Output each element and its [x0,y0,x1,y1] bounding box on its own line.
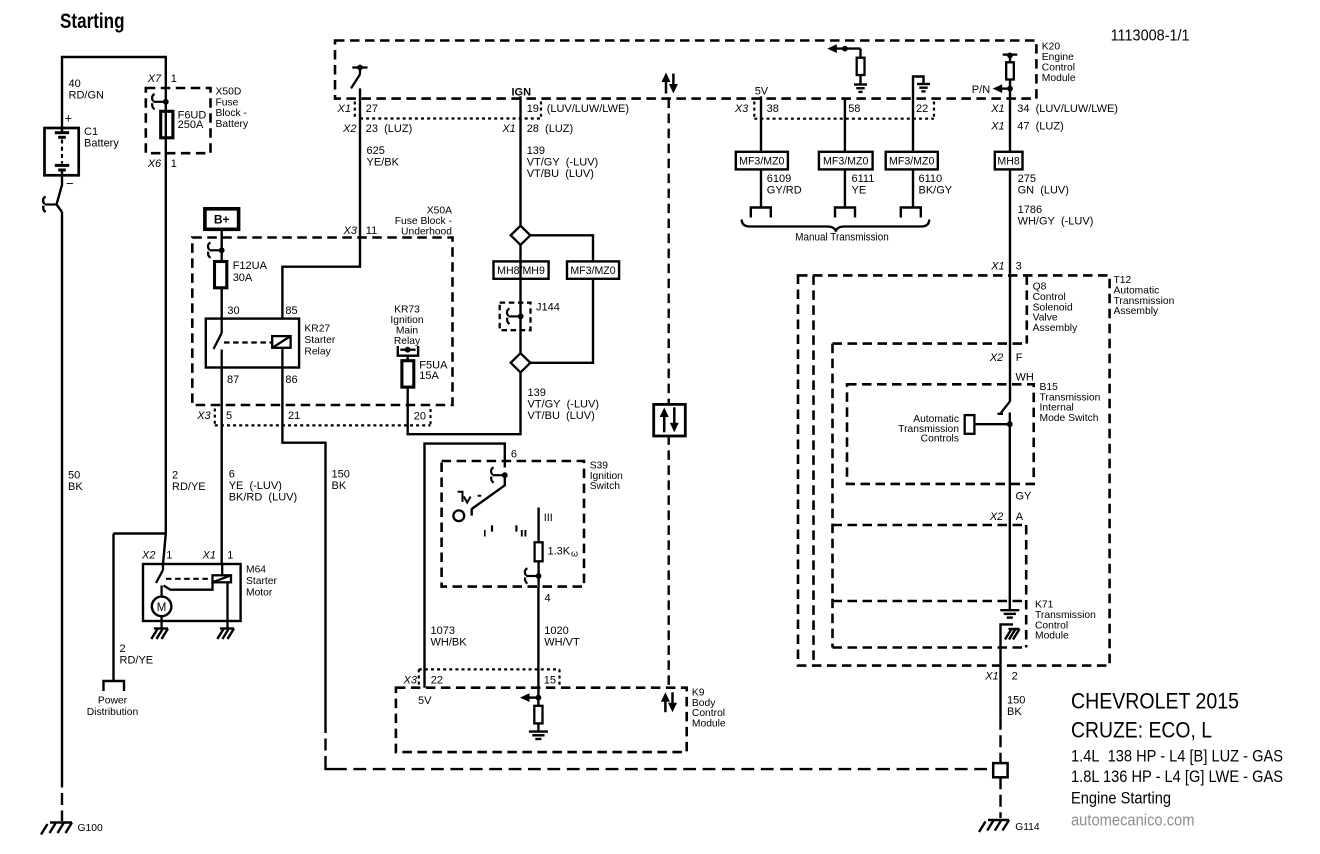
splice diamond lower [511,353,531,372]
wire 275 GN [1009,169,1011,401]
svg-text:1786: 1786 [1018,204,1042,216]
label X50A Fuse Block - Underhood [395,206,453,238]
battery minus sign [66,176,74,191]
svg-text:K71: K71 [1035,600,1054,611]
svg-text:30A: 30A [233,272,253,284]
battery negative lead with connector [43,175,62,212]
svg-text:−: − [66,176,74,191]
serial data arrows in K20 [662,73,678,94]
svg-text:1.3K: 1.3K [548,546,571,558]
svg-text:15: 15 [544,675,556,687]
wire through J144 [519,245,521,353]
label X50D Fuse Block - Battery [216,86,249,130]
svg-text:F: F [1016,352,1023,364]
svg-text:50: 50 [68,470,80,482]
pin X1 47 (LUZ) [990,121,1064,133]
label 6109 GY/RD [767,173,802,197]
svg-text:X1: X1 [202,550,216,562]
svg-text:WH/VT: WH/VT [544,637,580,649]
svg-text:MH8: MH8 [997,155,1019,167]
svg-text:G114: G114 [1015,822,1040,833]
wire label 40 RD/GN [69,78,105,102]
module K71 top border [833,600,1026,603]
svg-text:6: 6 [229,469,235,481]
svg-text:275: 275 [1018,173,1036,185]
wire P/N to MH8 [1009,99,1011,152]
svg-text:22: 22 [431,675,443,687]
label Q8 Control Solenoid Valve Assembly [1033,282,1078,335]
svg-text:X3: X3 [343,225,358,237]
svg-text:C1: C1 [84,126,98,138]
footer CHEVROLET 2015 [1071,688,1239,713]
svg-text:1.8L 136 HP - L4 [G] LWE - GAS: 1.8L 136 HP - L4 [G] LWE - GAS [1071,768,1283,786]
svg-text:X3: X3 [734,103,749,115]
battery label C1 Battery [84,126,119,150]
connector boundary dotted line right [754,118,934,120]
assembly inner left border [831,344,834,648]
label T12 Automatic Transmission Assembly [1114,275,1175,317]
pin 22 [916,102,934,118]
pin X2 A [989,511,1024,523]
wire dashed to splice [999,718,1001,763]
svg-text:19: 19 [527,103,539,115]
relay KR27 coil [272,336,290,367]
label 6110 BK/GY [919,173,953,197]
svg-text:Automatic: Automatic [1114,285,1160,296]
splice J144 [500,303,531,331]
terminal B+ [205,209,239,230]
ignition key symbol [458,492,482,503]
svg-text:MF3/MZ0: MF3/MZ0 [823,155,868,167]
label KR73 Ignition Main Relay [390,305,423,348]
position mark III wire [539,508,553,543]
svg-text:5V: 5V [418,695,432,707]
svg-text:P/N: P/N [972,84,990,96]
connector box MH8/MH9 [494,261,549,278]
pin 30 label [227,305,239,317]
chassis ground stub in K71 [1001,624,1020,717]
svg-text:Transmission: Transmission [1114,296,1175,307]
wire label 2 RD/YE [172,470,206,494]
wire pin 11 to KR27 coil [282,238,360,319]
svg-text:VT/GY (-LUV): VT/GY (-LUV) [527,156,599,168]
assembly T12 inner border [812,275,815,665]
ground G100 [41,823,103,835]
connector shoe second [835,208,855,218]
svg-text:ω: ω [571,549,578,559]
svg-text:MF3/MZ0: MF3/MZ0 [889,155,934,167]
svg-text:Assembly: Assembly [1114,306,1159,317]
label 275 GN (LUV) [1018,173,1069,197]
svg-text:M: M [157,602,167,614]
label KR27 Starter Relay [304,324,335,358]
connector S39 pin 6 [491,467,508,482]
connector S39 pin 4 [525,568,542,583]
power distribution off-page symbol [104,681,125,691]
svg-text:Switch: Switch [590,481,621,492]
svg-text:RD/GN: RD/GN [69,90,105,102]
wire 150 BK dashed segment [326,721,994,769]
footer 1.8L line [1071,768,1283,786]
label Automatic Transmission Controls [898,414,959,445]
pin X1 2 [984,670,1017,682]
svg-text:Engine: Engine [1042,52,1074,63]
wire 1073 WH/BK [425,444,505,688]
wire 5V pin 38 to MF3/MZ0 [760,96,762,152]
svg-text:X1: X1 [990,103,1004,115]
label B15 Transmission Internal Mode Switch [1040,382,1101,424]
position mark II [516,525,525,536]
pin X1 34 (LUV/LUW/LWE) [990,103,1118,115]
P/N switch resistor in K20 [993,53,1018,99]
pin X3 11 [343,225,378,237]
svg-text:VT/GY (-LUV): VT/GY (-LUV) [528,399,600,411]
switch S39 rotor circle [453,510,464,521]
svg-text:Module: Module [1035,631,1069,642]
label Power Distribution [87,696,139,718]
svg-text:BK/RD (LUV): BK/RD (LUV) [229,492,297,504]
pin 58 [848,103,860,115]
connector shoe first [751,208,771,218]
svg-text:Valve: Valve [1033,313,1058,324]
svg-text:Fuse: Fuse [216,97,239,108]
wire label 6 YE BK/RD [229,469,297,504]
pin X1 1 starter [202,550,234,562]
svg-text:87: 87 [227,374,239,386]
pin X1 28 (LUZ) [501,123,573,135]
pin X1 3 [990,260,1021,272]
fuse block X50A box [192,238,452,406]
wire branch to MF3/MZ0 [530,235,593,362]
wire label WH [1016,372,1034,384]
starter solenoid switch [156,564,163,597]
svg-text:Manual Transmission: Manual Transmission [795,232,889,244]
svg-text:GY: GY [1016,491,1033,503]
wire resistor to pin 4 [537,561,539,586]
switch S39 box [442,461,584,587]
label Manual Transmission [795,232,889,244]
relay KR27 actuation dashed link [224,341,272,343]
svg-text:X2: X2 [141,550,155,562]
pin X7 1 [147,73,177,85]
module K20 box [335,41,1036,99]
switch S39 blade [472,475,505,515]
ground pin 22 branch [913,77,930,99]
serial data dashed bus lower [668,435,670,687]
wire 150 BK from pin 21 [282,405,325,721]
svg-text:28 (LUZ): 28 (LUZ) [527,123,573,135]
svg-text:BK: BK [68,481,83,493]
ground under solenoid [217,629,234,640]
svg-text:150: 150 [1007,694,1025,706]
label 1.3K ohm [548,546,579,559]
solenoid actuation dashed link [166,578,213,580]
svg-text:1: 1 [166,550,172,562]
switch B15 box [847,384,1034,484]
svg-text:625: 625 [367,145,385,157]
svg-text:J144: J144 [536,302,560,314]
pin X2 1 starter [141,550,172,562]
fuse F12UA 30A [215,262,227,288]
wire B+ to fuse F12UA [220,229,222,261]
svg-text:Solenoid: Solenoid [1033,302,1073,313]
assembly right border lower [1025,525,1028,648]
svg-text:139: 139 [527,145,545,157]
svg-text:Starter: Starter [304,335,335,346]
svg-text:20: 20 [414,410,426,422]
svg-text:X1: X1 [990,121,1004,133]
svg-text:30: 30 [227,305,239,317]
pin 4 label [545,593,551,605]
splice diamond upper [511,226,531,245]
svg-text:X50D: X50D [216,86,242,97]
svg-text:Motor: Motor [246,587,273,598]
fuse F6UD 250A [161,111,173,138]
relay KR27 box [206,319,299,368]
wire label 50 BK [68,470,83,494]
module K71 bottom border [833,646,1026,649]
svg-text:11: 11 [366,225,377,237]
connector shoe third [901,208,921,218]
relay KR27 switch [214,319,222,368]
svg-text:CRUZE: ECO, L: CRUZE: ECO, L [1071,717,1212,742]
pin X2 23 (LUZ) [342,123,412,135]
svg-text:6109: 6109 [767,173,791,185]
serial data gateway box [654,404,686,436]
resistor 1.3K [535,542,543,561]
svg-text:Relay: Relay [394,336,421,347]
wire X6 to starter branch [163,89,166,565]
svg-text:III: III [544,512,553,524]
wire 139 to pin 20 [408,372,521,434]
svg-text:B+: B+ [214,213,230,227]
svg-text:Battery: Battery [216,119,249,130]
svg-text:21: 21 [288,410,300,422]
svg-text:A: A [1016,511,1024,523]
wire fuse F5UA to pin 20 [407,387,409,405]
svg-text:MF3/MZ0: MF3/MZ0 [570,265,615,277]
wire X1 pin to coil [221,564,223,575]
label P/N [972,84,990,96]
svg-text:Power: Power [98,696,128,707]
wire label 139 VT/GY VT/BU lower [528,387,600,422]
svg-text:X7: X7 [147,73,162,85]
svg-text:1: 1 [227,550,233,562]
splice square [993,763,1007,777]
svg-text:KR73: KR73 [394,305,420,316]
assembly Q8 lower boundary [833,342,1027,345]
svg-text:X1: X1 [337,103,351,115]
svg-text:X1: X1 [984,670,998,682]
svg-text:Fuse Block -: Fuse Block - [395,216,452,227]
wire label 2 RD/YE lower [120,643,154,667]
svg-text:Starting: Starting [60,10,125,33]
svg-text:X2: X2 [989,352,1003,364]
connector box MF3/MZ0 first [736,152,788,170]
wire IGN pin to diamond [519,96,521,226]
serial data dashed bus upper [668,99,670,405]
svg-text:YE (-LUV): YE (-LUV) [229,480,282,492]
label S39 Ignition Switch [590,461,623,493]
svg-text:WH/BK: WH/BK [431,637,468,649]
label F5UA 15A [419,360,448,382]
wire coil to ground [226,582,228,621]
svg-text:Mode Switch: Mode Switch [1040,413,1099,424]
svg-text:GN (LUV): GN (LUV) [1018,185,1069,197]
connector box MF3/MZ0 middle [567,261,619,278]
svg-text:Control: Control [1035,620,1068,631]
svg-text:1: 1 [171,73,177,85]
svg-text:27: 27 [366,103,378,115]
svg-text:F12UA: F12UA [233,260,268,272]
svg-text:150: 150 [332,469,350,481]
svg-text:RD/YE: RD/YE [172,481,206,493]
wire 6111 YE [844,169,846,207]
wire label 139 VT/GY VT/BU upper [527,145,599,180]
svg-text:6110: 6110 [919,173,943,185]
wire label GY [1016,491,1033,503]
svg-text:CHEVROLET 2015: CHEVROLET 2015 [1071,688,1239,713]
wire 6 YE to starter [220,405,222,564]
svg-text:1020: 1020 [544,625,568,637]
wire label 150 BK [332,469,350,493]
svg-text:Module: Module [1042,73,1076,84]
connector boundary dotted X50A [215,424,431,426]
svg-text:6111: 6111 [852,173,875,185]
wire pin 86 to X3 21 [281,368,283,406]
relay KR73 off-page symbol [398,346,418,356]
pin X3 22 [403,669,444,686]
coil link to motor [164,582,213,589]
svg-text:Q8: Q8 [1033,282,1047,293]
wire solenoid ground stub [226,621,228,628]
label 1073 WH/BK [431,625,468,649]
svg-text:1073: 1073 [431,625,455,637]
pin X1 27 [337,102,379,118]
connector box MH8 [995,152,1023,170]
svg-text:Underhood: Underhood [401,227,452,238]
connector boundary dotted K9 [419,668,560,670]
label K9 Body Control Module [692,688,726,730]
pin 15 label [544,669,560,686]
svg-text:automecanico.com: automecanico.com [1071,812,1195,830]
pin X3 5 [196,409,232,425]
svg-text:VT/BU (LUV): VT/BU (LUV) [528,410,595,422]
svg-text:YE: YE [852,185,867,197]
svg-text:M64: M64 [246,564,266,575]
svg-text:2: 2 [172,470,178,482]
svg-text:X3: X3 [196,410,211,422]
pin X6 1 [147,158,177,170]
assembly Q8 bottom boundary [833,524,1027,527]
module K9 box [396,688,687,752]
wire K20 pin 27 to X50A pin 11 [359,88,361,237]
svg-text:Module: Module [692,719,726,730]
connector in X50D [152,94,169,109]
serial data arrows in gateway [660,407,679,432]
motor M [152,597,172,617]
wire pin 22 to MF3/MZ0 [912,99,914,152]
pull resistor in K9 [520,693,548,739]
svg-text:Relay: Relay [304,347,331,358]
automatic transmission controls box [965,415,1013,434]
svg-text:KR27: KR27 [304,324,330,335]
pin 21 label [288,410,300,422]
svg-text:GY/RD: GY/RD [767,185,802,197]
pin 87 label [227,374,239,386]
svg-text:34 (LUV/LUW/LWE): 34 (LUV/LUW/LWE) [1017,103,1118,115]
wire KR73 to fuse F5UA [407,356,409,361]
svg-text:X50A: X50A [427,206,452,217]
connector below B+ [208,243,225,258]
label M64 Starter Motor [246,564,277,598]
svg-text:38: 38 [767,103,779,115]
svg-text:VT/BU (LUV): VT/BU (LUV) [527,168,594,180]
footer CRUZE: ECO, L [1071,717,1212,742]
svg-text:47 (LUZ): 47 (LUZ) [1017,121,1063,133]
svg-text:6: 6 [511,449,517,461]
label F6UD 250A [178,110,207,131]
pin X2 F [989,352,1023,364]
svg-text:BK: BK [332,480,347,492]
svg-text:Ignition: Ignition [390,315,423,326]
svg-text:85: 85 [285,305,297,317]
assembly T12 outer box [798,275,1110,665]
wire pin 58 to MF3/MZ0 [844,99,846,152]
wire label 150 BK right [1007,694,1025,718]
wire dashed to G100 [61,776,63,822]
svg-text:MF3/MZ0: MF3/MZ0 [739,155,784,167]
svg-text:22: 22 [916,103,928,115]
switch in K20 output driver [351,65,368,89]
svg-text:40: 40 [69,78,81,90]
connector box MF3/MZ0 third [886,152,938,170]
svg-text:Control: Control [1033,292,1066,303]
svg-text:+: + [65,111,73,126]
pin 19 (LUV/LUW/LWE) [527,102,629,118]
switch B15 mode blade [998,402,1010,425]
svg-text:Assembly: Assembly [1033,323,1078,334]
svg-text:23 (LUZ): 23 (LUZ) [366,123,412,135]
wire battery positive to X7 [62,57,166,128]
fuse block X50D box [146,88,211,153]
battery C1 [45,128,79,175]
svg-text:4: 4 [545,593,551,605]
connector boundary dotted line left [360,117,541,119]
svg-text:5V: 5V [755,86,769,98]
svg-text:1113008-1/1: 1113008-1/1 [1111,28,1190,45]
ground G114 [979,820,1040,833]
fuse F5UA 15A [402,361,414,387]
svg-text:Starter: Starter [246,576,277,587]
svg-text:3: 3 [1016,260,1022,272]
svg-text:1.4L 138 HP - L4 [B] LUZ - GA: 1.4L 138 HP - L4 [B] LUZ - GAS [1071,748,1283,766]
footer automecanico.com [1071,812,1195,830]
svg-text:Transmission: Transmission [1035,610,1096,621]
svg-text:58: 58 [848,103,860,115]
svg-text:2: 2 [1012,670,1018,682]
svg-text:15A: 15A [419,370,439,382]
svg-text:BK/GY: BK/GY [919,185,953,197]
svg-text:K20: K20 [1042,42,1061,53]
svg-text:X1: X1 [501,123,515,135]
label 5V at K20 [755,86,769,98]
wire B15 to K71 [1009,424,1011,610]
svg-text:BK: BK [1007,706,1022,718]
wire 50 BK [61,212,63,776]
svg-text:RD/YE: RD/YE [120,655,154,667]
svg-text:Main: Main [396,326,419,337]
